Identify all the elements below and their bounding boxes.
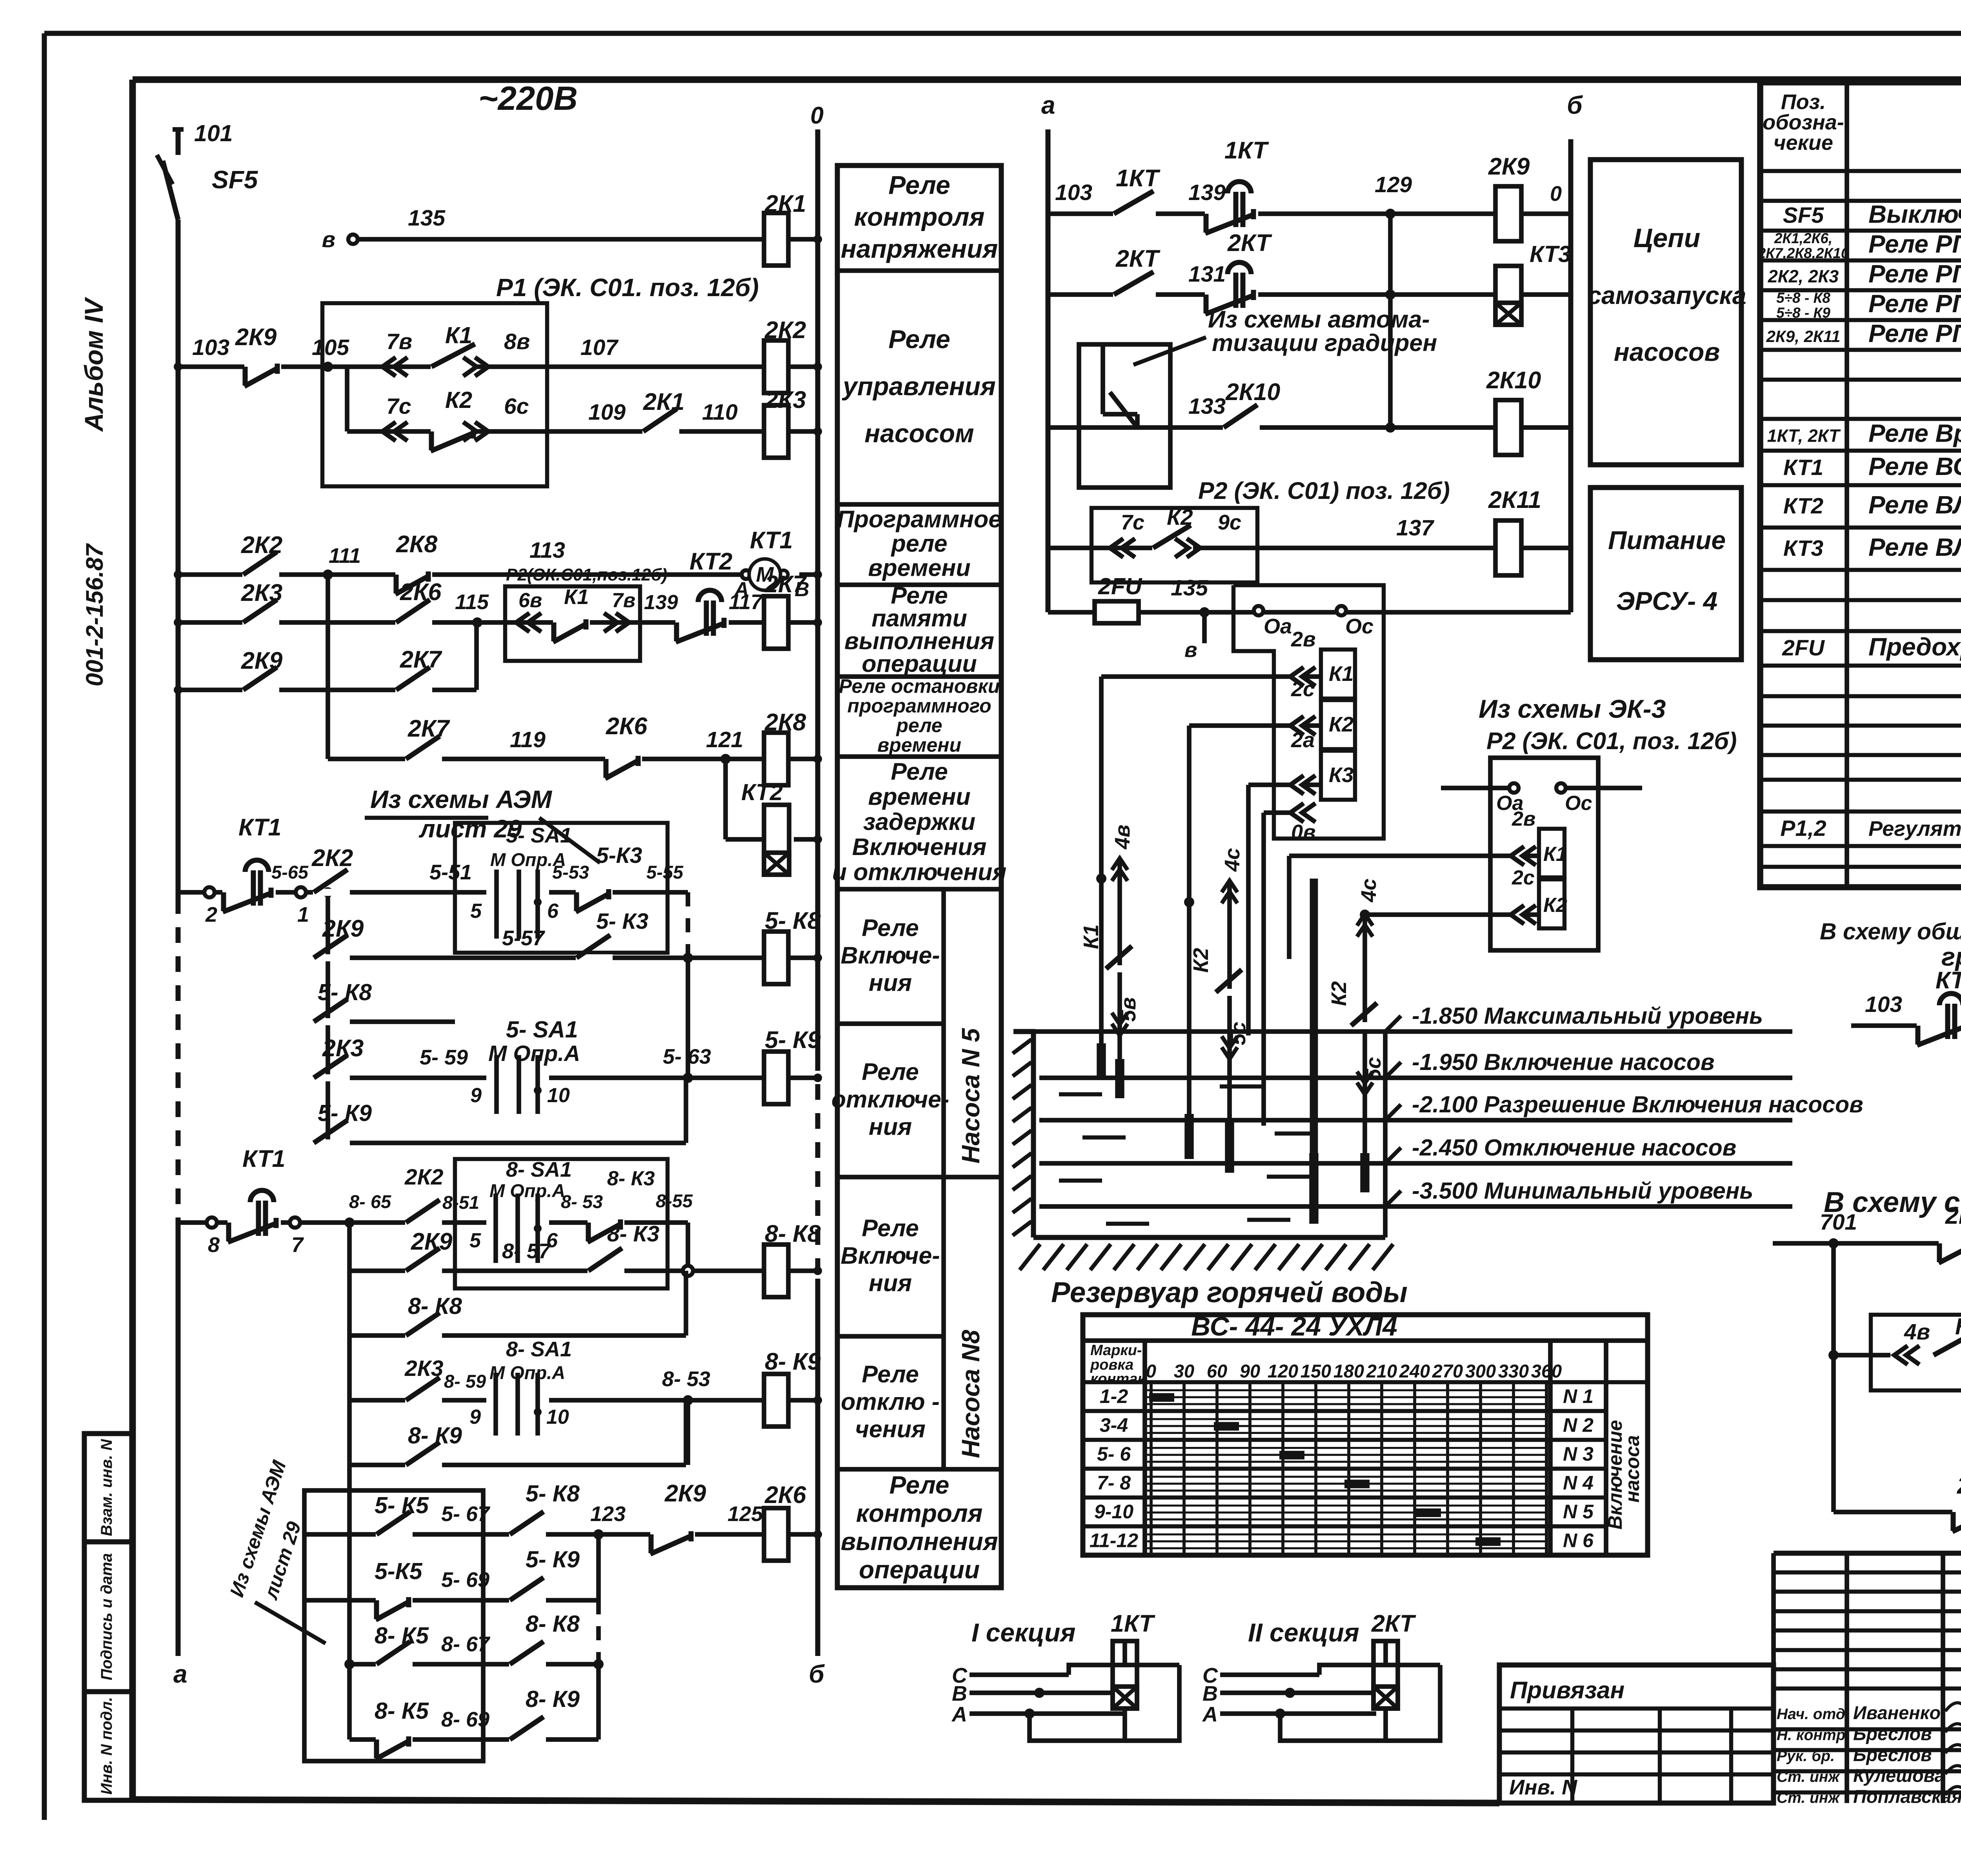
svg-text:М Опр.А: М Опр.А [489,1362,565,1383]
svg-text:К1: К1 [1543,843,1567,866]
svg-text:чекие: чекие [1774,131,1833,155]
svg-text:Реле: Реле [890,1471,950,1499]
svg-text:240: 240 [1399,1361,1430,1381]
svg-text:2К9: 2К9 [322,915,364,942]
svg-text:3-4: 3-4 [1100,1414,1128,1436]
svg-text:5÷8 - К8: 5÷8 - К8 [1776,290,1830,306]
svg-text:2К1,2К6,: 2К1,2К6, [1774,230,1832,246]
svg-text:управления: управления [842,372,996,401]
svg-text:8- 57: 8- 57 [502,1239,551,1263]
svg-text:2с: 2с [1512,866,1535,889]
svg-text:N 2: N 2 [1563,1414,1594,1436]
svg-text:129: 129 [1375,172,1412,197]
svg-text:8- 65: 8- 65 [349,1191,391,1212]
svg-text:330: 330 [1498,1361,1529,1381]
svg-text:1КТ, 2КТ: 1КТ, 2КТ [1767,426,1841,446]
svg-text:2а: 2а [1291,728,1315,752]
svg-text:Резервуар горячей воды: Резервуар горячей воды [1051,1277,1408,1308]
svg-text:Реле: Реле [888,170,950,199]
svg-text:Реле ВЛ- 47УХЛ4: Реле ВЛ- 47УХЛ4 [1868,533,1961,561]
svg-text:120: 120 [1268,1361,1298,1381]
svg-text:2К9: 2К9 [235,324,277,350]
svg-text:отклю -: отклю - [841,1388,940,1415]
svg-text:8- 59: 8- 59 [444,1371,486,1392]
svg-text:Альбом IV: Альбом IV [79,297,108,432]
svg-text:Р2 (ЭК. С01, поз. 12б): Р2 (ЭК. С01, поз. 12б) [1486,728,1737,754]
svg-text:2К2: 2К2 [404,1165,444,1190]
svg-text:9: 9 [470,1084,482,1107]
svg-text:1: 1 [297,903,309,926]
svg-text:300: 300 [1465,1361,1496,1381]
svg-text:Выключатель АК63-2МГ: Выключатель АК63-2МГ [1868,200,1961,228]
svg-text:8в: 8в [504,329,530,354]
svg-text:103: 103 [1865,992,1902,1017]
svg-text:Включе-: Включе- [840,942,940,969]
svg-text:~220B: ~220B [478,80,578,117]
svg-text:701: 701 [1820,1210,1857,1235]
svg-text:К1: К1 [1079,924,1103,949]
svg-text:ния: ния [869,1114,912,1140]
svg-text:7в: 7в [612,589,635,612]
svg-text:б: б [1567,91,1583,119]
svg-text:Программное: Программное [837,506,1002,533]
svg-text:реле: реле [895,715,942,737]
svg-text:2К3: 2К3 [322,1035,364,1061]
svg-text:SF5: SF5 [212,166,258,194]
svg-text:9с: 9с [1218,511,1241,534]
svg-text:задержки: задержки [863,808,975,835]
svg-text:2КТ: 2КТ [1371,1610,1416,1637]
svg-text:I секция: I секция [971,1618,1075,1647]
svg-text:5-К5: 5-К5 [375,1558,423,1584]
svg-text:2К9: 2К9 [241,647,282,674]
svg-text:2К11: 2К11 [1488,486,1541,513]
svg-text:Р2 (ЭК. С01) поз. 12б): Р2 (ЭК. С01) поз. 12б) [1198,477,1450,504]
svg-text:1КТ: 1КТ [1111,1610,1155,1637]
svg-text:К2: К2 [445,387,472,413]
svg-text:операции: операции [859,1556,980,1584]
svg-text:137: 137 [1396,515,1434,540]
svg-text:5- 69: 5- 69 [441,1568,489,1592]
svg-text:ния: ния [869,1270,912,1296]
svg-text:Инв. N: Инв. N [1509,1776,1577,1799]
svg-text:2КТ: 2КТ [1227,229,1272,256]
svg-text:КТ2: КТ2 [1783,493,1824,519]
svg-text:К1: К1 [445,322,472,348]
svg-text:К1: К1 [1329,662,1353,686]
svg-text:60: 60 [1207,1361,1227,1381]
svg-text:в: в [322,227,335,252]
svg-text:8- SA1: 8- SA1 [506,1158,572,1181]
svg-text:Реле: Реле [862,1059,919,1085]
svg-text:139: 139 [644,591,678,614]
svg-text:113: 113 [529,538,565,563]
svg-text:Нач. отд.: Нач. отд. [1777,1706,1850,1723]
svg-text:8-55: 8-55 [656,1190,693,1211]
svg-text:Р1 (ЭК. С01. поз. 12б): Р1 (ЭК. С01. поз. 12б) [496,273,759,302]
svg-text:ния: ния [869,970,912,996]
svg-text:контроля: контроля [854,202,985,231]
svg-text:131: 131 [1188,262,1226,287]
svg-text:2К9: 2К9 [411,1228,452,1255]
svg-text:111: 111 [329,544,361,568]
svg-text:5: 5 [470,900,482,923]
svg-text:7- 8: 7- 8 [1097,1472,1131,1494]
svg-text:0: 0 [1550,182,1562,206]
svg-text:Цепи: Цепи [1634,223,1700,253]
svg-text:2FU: 2FU [1782,635,1825,661]
svg-text:К2: К2 [1189,948,1213,973]
svg-text:8- К3: 8- К3 [607,1221,660,1246]
svg-text:контроля: контроля [856,1499,983,1527]
svg-text:К2: К2 [1329,713,1353,736]
svg-text:8- К9: 8- К9 [408,1423,462,1448]
svg-text:ЭРСУ- 4: ЭРСУ- 4 [1616,586,1717,615]
svg-text:5- К5: 5- К5 [375,1492,429,1518]
svg-text:133: 133 [1188,394,1226,419]
svg-text:2К1: 2К1 [643,388,684,415]
svg-text:Реле ВЛ- 47УХЛ4: Реле ВЛ- 47УХЛ4 [1868,491,1961,519]
svg-text:Кулешова: Кулешова [1853,1765,1945,1786]
svg-text:N 6: N 6 [1563,1529,1594,1551]
svg-text:Иваненко: Иваненко [1853,1702,1941,1723]
svg-text:8- К5: 8- К5 [375,1698,429,1724]
svg-text:Ос: Ос [1565,792,1592,815]
svg-text:8- К3: 8- К3 [607,1167,655,1190]
svg-text:б: б [809,1660,825,1688]
svg-text:Н. контр: Н. контр [1777,1727,1845,1743]
svg-text:5- SA1: 5- SA1 [506,824,572,847]
svg-text:Р1,2: Р1,2 [1780,816,1826,841]
svg-text:Включе-: Включе- [840,1242,940,1269]
svg-text:ВС- 44- 24 УХЛ4: ВС- 44- 24 УХЛ4 [1191,1312,1397,1341]
svg-text:135: 135 [408,206,446,231]
svg-text:А: А [951,1703,967,1726]
svg-text:2К7: 2К7 [400,646,442,673]
svg-text:5-55: 5-55 [646,862,684,883]
svg-text:0в: 0в [1291,821,1316,844]
svg-text:Реле: Реле [862,1215,919,1241]
svg-text:5- К3: 5- К3 [596,909,649,934]
svg-text:SF5: SF5 [1783,203,1825,228]
svg-text:Взам. инв. N: Взам. инв. N [98,1439,115,1536]
svg-text:121: 121 [706,727,743,752]
svg-text:11-12: 11-12 [1090,1529,1138,1551]
svg-text:В: В [952,1682,967,1705]
svg-text:8- 69: 8- 69 [441,1708,489,1731]
svg-text:5: 5 [469,1229,481,1252]
svg-text:N 4: N 4 [1563,1472,1594,1494]
svg-text:контак: контак [1090,1371,1146,1387]
svg-text:и отключения: и отключения [832,859,1007,885]
svg-text:Реле РПУ2- М36 400 У3Б: Реле РПУ2- М36 400 У3Б [1868,289,1961,318]
svg-text:2: 2 [205,903,217,926]
svg-text:8- SA1: 8- SA1 [506,1337,572,1361]
svg-text:6: 6 [547,900,559,923]
svg-text:КТ3: КТ3 [1936,967,1961,993]
svg-text:1КТ: 1КТ [1116,165,1161,191]
svg-text:2К6: 2К6 [764,1481,806,1508]
svg-text:Из схемы АЭМ: Из схемы АЭМ [370,785,553,813]
svg-text:Привязан: Привязан [1510,1677,1624,1703]
svg-text:0: 0 [810,102,824,129]
svg-text:1-2: 1-2 [1100,1385,1128,1407]
svg-text:напряжения: напряжения [841,234,998,263]
svg-text:2К6: 2К6 [606,713,648,739]
svg-text:КТ2: КТ2 [689,548,733,575]
svg-text:-1.950 Включение насосов: -1.950 Включение насосов [1412,1049,1715,1075]
svg-text:360: 360 [1531,1361,1562,1381]
svg-text:КТ3: КТ3 [1783,536,1824,561]
svg-text:Марки-: Марки- [1090,1342,1142,1359]
svg-text:в: в [1184,638,1197,662]
svg-text:Реле РПУ2- М36 620 У3Б: Реле РПУ2- М36 620 У3Б [1868,319,1961,348]
svg-text:8- 53: 8- 53 [561,1191,603,1212]
svg-text:Из схемы автома-: Из схемы автома- [1208,306,1430,333]
svg-text:Реле: Реле [862,1361,919,1388]
svg-text:КТ1: КТ1 [242,1145,285,1172]
svg-text:Оа: Оа [1264,615,1292,638]
svg-text:Из схемы ЭК-3: Из схемы ЭК-3 [1479,694,1666,723]
svg-text:Бреслов: Бреслов [1853,1744,1932,1765]
svg-text:1КТ: 1КТ [1224,137,1269,164]
svg-text:101: 101 [194,120,233,146]
svg-text:8- К9: 8- К9 [765,1348,821,1375]
svg-text:5в: 5в [1117,997,1140,1022]
svg-text:7: 7 [291,1233,304,1257]
svg-text:2К11: 2К11 [1957,1472,1961,1499]
svg-text:5- 6: 5- 6 [1097,1443,1131,1465]
svg-text:Подпись и дата: Подпись и дата [98,1553,115,1680]
svg-text:123: 123 [590,1502,626,1526]
svg-text:Реле ВС- 44- 24 УХЛ4: Реле ВС- 44- 24 УХЛ4 [1868,452,1961,480]
svg-text:5-65: 5-65 [271,862,309,883]
svg-text:139: 139 [1188,180,1226,205]
svg-text:5- 59: 5- 59 [420,1046,468,1069]
svg-text:операции: операции [862,650,977,677]
svg-text:150: 150 [1301,1361,1331,1381]
svg-text:чения: чения [855,1416,926,1443]
svg-text:отключе-: отключе- [831,1086,950,1113]
svg-text:обозна-: обозна- [1763,111,1844,134]
svg-text:В схему общих цепей Вентил: В схему общих цепей Вентиляторов [1820,919,1961,944]
svg-text:8- 53: 8- 53 [662,1367,710,1391]
svg-text:2К8: 2К8 [396,531,437,557]
svg-text:8- 67: 8- 67 [441,1632,491,1656]
svg-text:109: 109 [588,400,626,425]
svg-text:Реле: Реле [891,758,948,785]
svg-text:2К1: 2К1 [1945,1202,1961,1229]
svg-text:2К9, 2К11: 2К9, 2К11 [1766,327,1841,346]
svg-text:II секция: II секция [1248,1618,1359,1647]
svg-text:2К9: 2К9 [664,1480,706,1507]
svg-text:7с: 7с [1121,511,1144,534]
svg-text:-1.850 Максимальный уровень: -1.850 Максимальный уровень [1412,1003,1763,1029]
svg-text:110: 110 [702,400,738,425]
svg-text:6в: 6в [518,589,542,612]
svg-text:2К10: 2К10 [1225,378,1280,405]
svg-text:Включения: Включения [852,833,987,860]
svg-text:2в: 2в [1512,808,1535,830]
svg-text:КТ1: КТ1 [750,527,793,553]
svg-text:107: 107 [580,335,618,360]
svg-text:5-57: 5-57 [502,926,546,950]
svg-text:Питание: Питание [1608,526,1726,555]
svg-text:2FU: 2FU [1098,573,1142,599]
svg-text:М Опр.А: М Опр.А [489,1180,565,1201]
svg-text:КТ1: КТ1 [238,814,281,841]
svg-text:Ос: Ос [1345,615,1373,638]
svg-text:8- К8: 8- К8 [765,1220,821,1247]
svg-text:135: 135 [1171,575,1208,600]
svg-text:насосом: насосом [864,419,974,448]
svg-text:5- SA1: 5- SA1 [506,1017,578,1043]
svg-text:9-10: 9-10 [1094,1501,1133,1523]
svg-text:8: 8 [208,1233,220,1257]
svg-text:125: 125 [728,1502,763,1526]
svg-text:001-2-156.87: 001-2-156.87 [81,543,108,686]
svg-text:119: 119 [510,727,546,752]
svg-text:Реле: Реле [888,325,950,354]
svg-text:насосов: насосов [1614,337,1720,366]
svg-text:К1: К1 [1955,1314,1961,1339]
svg-text:К1: К1 [564,585,589,609]
svg-text:М Опр.А: М Опр.А [488,1041,580,1066]
svg-text:насоса: насоса [1621,1435,1643,1503]
svg-text:2К9: 2К9 [1488,153,1530,180]
svg-text:5- К8: 5- К8 [765,907,821,934]
svg-text:Предохранитель ПН-50: Предохранитель ПН-50 [1868,633,1961,661]
svg-text:90: 90 [1240,1361,1260,1381]
svg-text:Регулятор сигнализатор уровн: Регулятор сигнализатор уровня ЭРСУ-4 [1868,817,1961,841]
svg-text:Реле Времени РВ 238УХЛ4: Реле Времени РВ 238УХЛ4 [1868,419,1961,448]
svg-text:2К2: 2К2 [764,317,806,343]
svg-text:103: 103 [1055,180,1092,205]
svg-text:Насоса N 5: Насоса N 5 [957,1028,985,1163]
svg-text:2К1: 2К1 [764,190,806,217]
svg-text:2в: 2в [1291,628,1316,651]
svg-text:8- К8: 8- К8 [526,1611,580,1637]
svg-text:2К2: 2К2 [241,531,282,558]
svg-text:-2.100 Разрешение Включения: -2.100 Разрешение Включения насосов [1412,1092,1863,1117]
svg-text:К2: К2 [1543,894,1567,917]
svg-text:2К3: 2К3 [404,1356,444,1381]
svg-text:0: 0 [1146,1361,1156,1381]
svg-text:4в: 4в [1904,1319,1930,1345]
svg-text:времени: времени [877,734,961,756]
svg-text:Поз.: Поз. [1781,90,1826,114]
svg-text:-2.450 Отключение насосов: -2.450 Отключение насосов [1412,1135,1736,1161]
svg-text:4в: 4в [1111,824,1134,850]
svg-text:КТ3: КТ3 [1530,241,1571,267]
svg-text:2К7: 2К7 [764,571,807,597]
svg-text:Бреслов: Бреслов [1853,1723,1932,1744]
svg-text:времени: времени [868,783,970,810]
svg-text:4с: 4с [1221,848,1244,872]
svg-text:180: 180 [1333,1361,1364,1381]
svg-text:10: 10 [546,1406,569,1428]
svg-text:программного: программного [847,695,991,717]
svg-text:Инв. N подл.: Инв. N подл. [98,1697,115,1795]
svg-text:5- К8: 5- К8 [318,979,372,1005]
svg-text:N 5: N 5 [1563,1501,1594,1523]
svg-text:115: 115 [455,590,489,614]
svg-text:117: 117 [729,590,764,614]
svg-text:5-51: 5-51 [429,861,472,884]
svg-text:2КТ: 2КТ [1115,245,1161,272]
svg-text:В: В [1202,1682,1218,1705]
svg-text:-3.500 Минимальный уровень: -3.500 Минимальный уровень [1412,1178,1753,1204]
svg-text:a: a [173,1660,187,1688]
svg-text:8- К9: 8- К9 [526,1686,580,1712]
svg-text:времени: времени [868,555,970,581]
svg-text:2К6: 2К6 [400,579,442,605]
svg-text:5- К9: 5- К9 [318,1100,372,1126]
svg-text:К2: К2 [1327,981,1351,1006]
svg-text:К3: К3 [1329,763,1353,787]
svg-text:2К7: 2К7 [407,715,450,742]
svg-text:7в: 7в [386,329,412,354]
svg-text:8- К5: 8- К5 [375,1623,429,1649]
svg-text:КТ2: КТ2 [741,779,783,805]
svg-text:2с: 2с [1291,677,1315,701]
svg-text:2К10: 2К10 [1486,367,1541,393]
svg-text:4с: 4с [1357,879,1381,903]
svg-text:30: 30 [1174,1361,1194,1381]
svg-text:А: А [1202,1703,1218,1726]
svg-text:105: 105 [312,335,349,360]
svg-text:2К8: 2К8 [764,709,806,735]
svg-text:Поплавская: Поплавская [1853,1786,1961,1807]
svg-text:N 1: N 1 [1563,1385,1594,1407]
svg-text:5-53: 5-53 [552,862,589,883]
svg-text:Реле остановки: Реле остановки [839,675,1000,697]
svg-text:2К3: 2К3 [241,579,282,606]
svg-text:2К3: 2К3 [764,386,806,413]
svg-text:N 3: N 3 [1563,1443,1594,1465]
svg-text:Ст. инж: Ст. инж [1777,1769,1840,1785]
svg-text:8-51: 8-51 [442,1192,479,1213]
svg-text:10: 10 [547,1084,570,1107]
svg-text:К2: К2 [1167,505,1193,530]
svg-text:Насоса N8: Насоса N8 [957,1330,985,1458]
svg-text:5-К3: 5-К3 [596,843,642,868]
svg-text:210: 210 [1366,1361,1397,1381]
svg-text:5- 67: 5- 67 [441,1502,491,1526]
svg-text:КТ1: КТ1 [1783,455,1823,480]
svg-text:9: 9 [469,1406,481,1428]
svg-text:Рук. бр.: Рук. бр. [1777,1748,1835,1765]
svg-text:103: 103 [192,335,229,360]
svg-text:5- К8: 5- К8 [526,1481,580,1507]
svg-text:самозапуска: самозапуска [1588,281,1746,309]
svg-text:6с: 6с [504,394,529,419]
svg-text:Ст. инж: Ст. инж [1777,1790,1840,1807]
svg-text:5÷8 - К9: 5÷8 - К9 [1776,305,1830,321]
svg-text:270: 270 [1432,1361,1463,1381]
svg-text:2К2, 2К3: 2К2, 2К3 [1768,266,1839,286]
svg-text:8- К8: 8- К8 [408,1293,462,1319]
svg-text:7с: 7с [386,394,411,419]
svg-text:2К2: 2К2 [311,844,353,871]
svg-text:2К7,2К8,2К10: 2К7,2К8,2К10 [1757,245,1849,261]
svg-text:5- К9: 5- К9 [526,1547,580,1572]
svg-text:a: a [1041,91,1055,119]
svg-text:тизации градирен: тизации градирен [1212,329,1437,356]
svg-text:Реле: Реле [862,915,919,941]
svg-text:выполнения: выполнения [841,1527,998,1556]
svg-text:Р2(ЭК.С01,поз.12б): Р2(ЭК.С01,поз.12б) [506,565,668,584]
